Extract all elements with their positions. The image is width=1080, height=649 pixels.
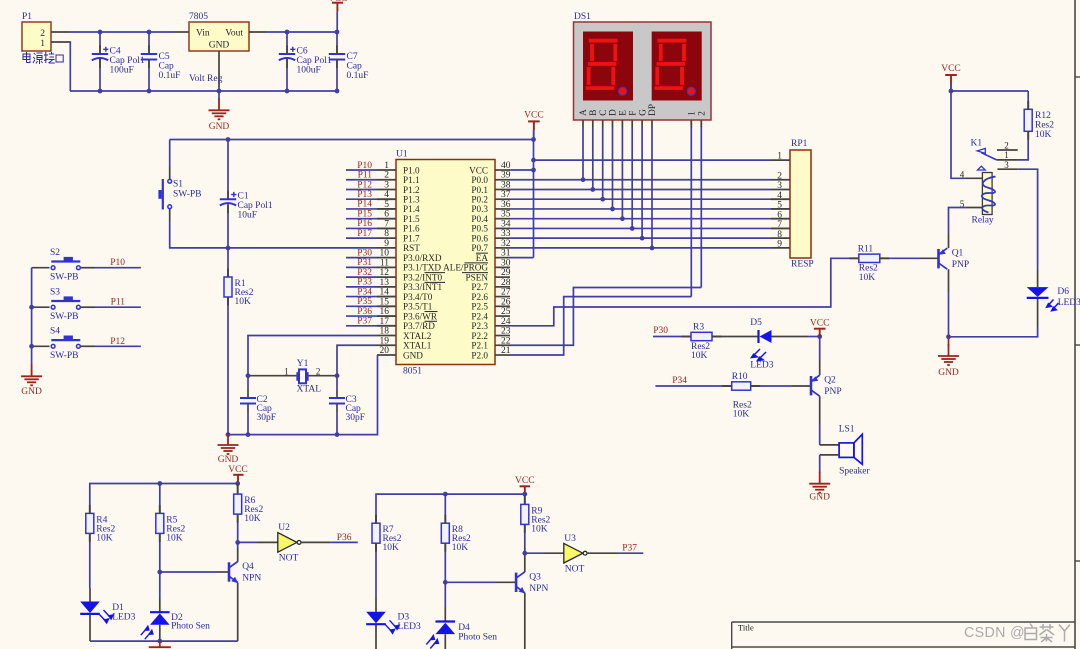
svg-text:S3: S3 [50, 287, 60, 297]
svg-text:C: C [598, 110, 608, 116]
photodiode D2 symbol [150, 611, 170, 613]
svg-text:18: 18 [380, 327, 390, 337]
U1 pin 33 stub [495, 237, 510, 239]
svg-text:LED3: LED3 [1058, 298, 1080, 308]
photodiode D4 symbol [436, 620, 456, 622]
U1 pin 8 stub [377, 237, 396, 239]
resistor R1 [227, 248, 229, 277]
U1 pin name overlines [425, 253, 489, 321]
svg-text:D6: D6 [1057, 287, 1069, 297]
U1 pin 32 stub [495, 247, 510, 249]
RP1 pin 1 stub [771, 159, 790, 161]
svg-text:P2.6: P2.6 [471, 292, 488, 302]
svg-text:3: 3 [384, 180, 389, 190]
wire P0.1 to RP1 pin 3 [510, 188, 771, 190]
svg-text:5: 5 [777, 201, 782, 211]
svg-text:31: 31 [501, 249, 511, 259]
svg-text:P14: P14 [357, 200, 372, 210]
U1 pin 15 stub [377, 305, 396, 307]
svg-text:P15: P15 [357, 209, 372, 219]
wire DS1 pin E [621, 120, 623, 128]
svg-text:P37: P37 [357, 317, 372, 327]
display DS1 right digit [652, 32, 702, 101]
resistor R6 [234, 494, 242, 514]
svg-text:Speaker: Speaker [839, 467, 870, 477]
svg-text:19: 19 [380, 336, 390, 346]
transistor Q1 [939, 248, 948, 269]
svg-text:CSDN @: CSDN @ [964, 625, 1025, 641]
RP1 pin 2 stub [771, 179, 790, 181]
svg-text:P3.0/RXD: P3.0/RXD [403, 253, 442, 263]
wire D2 to bottom rail [159, 625, 161, 641]
inverter U3 [564, 543, 583, 563]
junction D5/VCC [817, 334, 822, 339]
svg-text:6: 6 [777, 210, 782, 220]
junction [29, 344, 34, 349]
junction U2 input [235, 540, 240, 545]
wire coil pin 5 to Q1 emitter [949, 208, 966, 234]
svg-text:Q2: Q2 [824, 376, 836, 386]
svg-text:GND: GND [209, 41, 230, 51]
svg-text:P36: P36 [357, 307, 372, 317]
title block [732, 621, 1075, 623]
wire DS1 pin 1 (digit1 common) [690, 120, 692, 128]
wire P2.1 (pin22) to DS1 pin2 [510, 288, 701, 346]
resistor R7 [372, 523, 380, 543]
wire U2 output to net label P36 [301, 541, 331, 543]
border tick marks [1075, 76, 1080, 78]
LED D1 symbol [80, 602, 100, 614]
U1 pin 30 stub [495, 266, 510, 268]
U1 pin 36 stub [495, 208, 510, 210]
svg-text:P10: P10 [357, 161, 372, 171]
wire P0.6 to RP1 pin 8 [510, 237, 771, 239]
svg-text:R10: R10 [732, 372, 748, 382]
wire S1 to RST [169, 209, 171, 221]
wire D6 to gnd rail [1037, 299, 1039, 327]
wire net label P14 [346, 208, 377, 210]
svg-text:K1: K1 [971, 139, 983, 149]
junction [531, 158, 536, 163]
svg-text:P1.4: P1.4 [403, 204, 420, 214]
svg-text:37: 37 [501, 190, 511, 200]
wire P0.3 to RP1 pin 5 [510, 208, 771, 210]
watermark hand-drawn CJK 白茶丫 [1025, 624, 1070, 643]
svg-text:P17: P17 [357, 229, 372, 239]
junction R5 top [157, 481, 162, 486]
capacitor C6 [286, 32, 288, 47]
junction gnd stub [157, 639, 162, 644]
junction [246, 432, 251, 437]
svg-text:P35: P35 [357, 297, 372, 307]
U1 pin 1 stub [377, 169, 396, 171]
wire Q4 base [160, 571, 217, 573]
svg-text:P1.3: P1.3 [403, 195, 420, 205]
svg-text:2: 2 [1004, 140, 1009, 150]
svg-text:Q3: Q3 [529, 572, 541, 582]
wire net label P16 [346, 227, 377, 229]
junction [949, 89, 954, 94]
U1 pin 4 stub [377, 198, 396, 200]
LED D3 symbol [366, 612, 386, 624]
svg-text:R12: R12 [1035, 111, 1051, 121]
svg-text:P2.5: P2.5 [471, 302, 488, 312]
svg-text:10K: 10K [733, 410, 750, 420]
svg-text:VCC: VCC [469, 165, 488, 175]
svg-text:P1: P1 [22, 12, 32, 22]
svg-text:P2.4: P2.4 [471, 311, 488, 321]
svg-text:30: 30 [501, 258, 511, 268]
svg-text:P1.6: P1.6 [403, 224, 420, 234]
U1 pin 5 stub [377, 208, 396, 210]
svg-text:8: 8 [777, 230, 782, 240]
resistor R4 [86, 513, 94, 533]
U1 pin 12 stub [377, 276, 396, 278]
capacitor C2 [247, 376, 249, 390]
U1 pin 17 stub [377, 325, 396, 327]
VCC rail wire (reset) y=139.5 [170, 139, 534, 141]
wire R8 to D4 [444, 543, 446, 607]
svg-text:P2.2: P2.2 [471, 331, 488, 341]
ground GND (7805) [209, 98, 230, 119]
capacitor C4 symbol [99, 46, 101, 55]
svg-text:NOT: NOT [565, 565, 585, 575]
junction R9 top [522, 492, 527, 497]
RP1 pin 7 stub [771, 227, 790, 229]
resistor R11 [859, 254, 880, 262]
resistor R12 [1027, 91, 1029, 109]
wire P0.7 to RP1 pin 9 [510, 247, 771, 249]
svg-text:P1.1: P1.1 [403, 175, 420, 185]
svg-text:P3.6/WR: P3.6/WR [403, 311, 438, 321]
svg-text:P30: P30 [357, 248, 372, 258]
U1 pin 23 stub [495, 335, 510, 337]
svg-text:39: 39 [501, 171, 511, 181]
junction Q3 base [443, 580, 448, 585]
svg-text:2: 2 [40, 29, 45, 39]
junction R6 top [235, 481, 240, 486]
capacitor C5 symbol [148, 46, 150, 55]
U1 pin 35 stub [495, 218, 510, 220]
svg-text:P36: P36 [337, 533, 352, 543]
svg-text:36: 36 [501, 200, 511, 210]
svg-text:DP: DP [647, 104, 657, 116]
svg-text:1: 1 [384, 161, 389, 171]
svg-text:P11: P11 [358, 171, 373, 181]
wire net label P34 [346, 296, 377, 298]
svg-text:GND: GND [403, 350, 423, 360]
resistor R1 [224, 277, 232, 297]
capacitor C7 [336, 32, 338, 47]
svg-text:R11: R11 [858, 244, 874, 254]
svg-text:P34: P34 [672, 376, 687, 386]
U1 pin 2 stub [377, 179, 396, 181]
svg-text:VCC: VCC [228, 465, 248, 475]
svg-text:1: 1 [777, 152, 782, 162]
svg-text:A: A [578, 109, 588, 116]
svg-text:29: 29 [501, 268, 511, 278]
svg-text:LED3: LED3 [112, 613, 135, 623]
junction U3 input [522, 551, 527, 556]
RP1 pin 6 stub [771, 218, 790, 220]
svg-text:P0.4: P0.4 [471, 214, 488, 224]
wire U3 output to net label P37 [587, 552, 617, 554]
svg-text:P12: P12 [110, 337, 125, 347]
svg-text:8051: 8051 [403, 367, 422, 377]
svg-text:20: 20 [380, 346, 390, 356]
ground symbol relay [938, 344, 959, 365]
svg-text:NPN: NPN [529, 584, 548, 594]
svg-text:P2.1: P2.1 [471, 341, 488, 351]
svg-text:P3.3/INT1: P3.3/INT1 [403, 282, 442, 292]
svg-text:D4: D4 [458, 623, 470, 633]
junction Q4 base [157, 570, 162, 575]
wire pin40 VCC [510, 169, 534, 171]
wire D5 to VCC [772, 336, 809, 338]
svg-text:9: 9 [777, 239, 782, 249]
wire DS1 pin 2 (digit2 common) [700, 120, 702, 128]
svg-text:G: G [637, 109, 647, 116]
wire DS1 pin B [592, 120, 594, 128]
svg-text:R3: R3 [693, 323, 704, 333]
svg-text:4: 4 [777, 191, 782, 201]
U1 pin 6 stub [377, 218, 396, 220]
wire speaker to gnd [820, 454, 839, 456]
junction DP [650, 245, 655, 250]
svg-text:40: 40 [501, 161, 511, 171]
svg-text:P0.7: P0.7 [471, 243, 488, 253]
ground GND (switches) [21, 364, 42, 385]
svg-text:10uF: 10uF [238, 211, 258, 221]
U1 pin 40 stub [495, 169, 510, 171]
wire R3 to D5 [712, 336, 758, 338]
wire Q3 emitter down (cropped) [524, 593, 526, 649]
svg-text:P2.3: P2.3 [471, 321, 488, 331]
transistor Q3 [516, 572, 525, 593]
svg-text:P0.6: P0.6 [471, 233, 488, 243]
wire D3 down (cropped) [375, 625, 377, 649]
U1 pin 39 stub [495, 179, 510, 181]
svg-text:26: 26 [501, 297, 511, 307]
wire R11 to Q1 base [880, 257, 920, 259]
wire net label P31 [346, 266, 377, 268]
wire 7805 GND down [218, 51, 220, 87]
svg-text:15: 15 [380, 297, 390, 307]
svg-text:P16: P16 [357, 219, 372, 229]
resistor R9 [521, 504, 529, 524]
wire Q1 collector down [948, 269, 950, 292]
svg-text:P1.0: P1.0 [403, 165, 420, 175]
svg-text:VCC: VCC [515, 476, 535, 486]
wire VCC to Q2 emitter [819, 337, 821, 361]
wire DS1 pin G [641, 120, 643, 128]
resistor R6 [237, 484, 239, 495]
svg-text:P13: P13 [357, 190, 372, 200]
junction F [630, 226, 635, 231]
svg-text:P10: P10 [110, 258, 125, 268]
svg-text:GND: GND [21, 387, 42, 397]
svg-text:10K: 10K [244, 514, 261, 524]
U1 pin 31 stub [495, 257, 510, 259]
svg-text:P11: P11 [111, 298, 126, 308]
svg-text:F: F [627, 111, 637, 116]
U1 pin 22 stub [495, 344, 510, 346]
wire DS1 pin DP [651, 120, 653, 128]
wire P1 pin2 to 7805 Vin [51, 31, 69, 33]
junction C1 top [226, 137, 231, 142]
U1 pin 13 stub [377, 286, 396, 288]
U1 pin 9 stub [377, 247, 396, 249]
wire net label P10 [346, 169, 377, 171]
U1 pin 11 stub [377, 266, 396, 268]
svg-text:2: 2 [777, 171, 782, 181]
wire XTAL1 (pin19) to Y1 [337, 345, 377, 375]
svg-text:P30: P30 [653, 326, 668, 336]
wire net label P13 [346, 198, 377, 200]
svg-text:22: 22 [501, 336, 511, 346]
svg-text:RP1: RP1 [791, 139, 808, 149]
svg-text:27: 27 [501, 288, 511, 298]
resistor R8 [441, 523, 449, 543]
junction Q1 collector / D6 [946, 334, 951, 339]
junction [98, 30, 103, 35]
svg-text:Vin: Vin [196, 29, 210, 39]
resistor R5 [156, 513, 164, 533]
wire net label P15 [346, 218, 377, 220]
inverter U2 NOT [238, 541, 257, 543]
U1 pin 7 stub [377, 227, 396, 229]
RP1 pin 3 stub [771, 188, 790, 190]
svg-text:P1.5: P1.5 [403, 214, 420, 224]
junction [335, 30, 340, 35]
svg-text:U3: U3 [564, 534, 576, 544]
svg-text:100uF: 100uF [110, 66, 134, 76]
capacitor C3 [336, 376, 338, 390]
svg-text:D3: D3 [398, 612, 410, 622]
wire net label P35 [346, 305, 377, 307]
wire R10 to Q2 base [751, 385, 792, 387]
svg-text:10K: 10K [1035, 130, 1052, 140]
RP1 pin 8 stub [771, 237, 790, 239]
U1 pin 20 stub [377, 354, 396, 356]
svg-text:PNP: PNP [952, 260, 969, 270]
svg-text:10K: 10K [859, 273, 876, 283]
transistor Q2 [811, 375, 820, 396]
svg-text:2: 2 [316, 367, 321, 377]
U1 pin 28 stub [495, 286, 510, 288]
U1 pin 38 stub [495, 188, 510, 190]
junction [335, 89, 340, 94]
svg-text:P3.1/TXD: P3.1/TXD [403, 263, 441, 273]
wire R9 to U3 input [524, 524, 526, 548]
junction D [610, 207, 615, 212]
wire P0.0 to RP1 pin 2 [510, 179, 771, 181]
svg-text:10K: 10K [452, 543, 469, 553]
wire S4 to net label P12 [81, 345, 96, 347]
svg-text:P3.4/T0: P3.4/T0 [403, 292, 433, 302]
svg-text:32: 32 [501, 239, 511, 249]
wire P0.5 to RP1 pin 7 [510, 227, 771, 229]
svg-text:17: 17 [380, 317, 390, 327]
svg-text:3: 3 [777, 181, 782, 191]
wire R6 to U2 input [237, 514, 239, 548]
ground stub (cropped) [159, 641, 161, 647]
svg-text:PSEN: PSEN [466, 272, 489, 282]
svg-text:NOT: NOT [279, 554, 299, 564]
ground GND (relay) [948, 337, 950, 346]
junction Y1 left [246, 373, 251, 378]
svg-text:Cap Pol1: Cap Pol1 [297, 56, 332, 66]
svg-text:XTAL: XTAL [297, 384, 322, 394]
svg-text:E: E [618, 110, 628, 116]
svg-text:14: 14 [380, 288, 390, 298]
switch S4 SW-PB [32, 345, 50, 347]
svg-text:GND: GND [938, 368, 959, 378]
svg-text:P3.7/RD: P3.7/RD [403, 321, 435, 331]
inverter U3 NOT [525, 552, 544, 554]
svg-text:S2: S2 [50, 248, 60, 258]
svg-text:35: 35 [501, 210, 511, 220]
ground symbol xtal [218, 433, 239, 454]
svg-text:10K: 10K [235, 297, 252, 307]
junction RST node [226, 246, 231, 251]
svg-text:10K: 10K [691, 351, 708, 361]
svg-text:P12: P12 [357, 180, 372, 190]
svg-text:P0.2: P0.2 [471, 195, 488, 205]
svg-text:LED3: LED3 [750, 361, 773, 371]
ground symbol (power section) [218, 91, 220, 100]
svg-text:0.1uF: 0.1uF [159, 71, 181, 81]
wire R1 to xtal ground rail [227, 297, 229, 435]
svg-text:8: 8 [384, 229, 389, 239]
svg-text:1: 1 [687, 111, 697, 116]
svg-text:Title: Title [738, 623, 754, 633]
wire sensor-left vcc rail [90, 484, 238, 514]
junction [531, 137, 536, 142]
svg-text:P1.2: P1.2 [403, 185, 420, 195]
svg-text:Cap: Cap [347, 62, 363, 72]
svg-text:5: 5 [384, 200, 389, 210]
wire VCC rail to R12 [951, 90, 1028, 92]
svg-text:10K: 10K [531, 524, 548, 534]
svg-text:Cap Pol1: Cap Pol1 [110, 56, 145, 66]
sheet border right edge [1074, 0, 1076, 649]
wire VCC vertical to EA [533, 140, 535, 258]
wire net label P33 [346, 286, 377, 288]
svg-text:GND: GND [218, 455, 239, 465]
svg-text:SW-PB: SW-PB [50, 273, 79, 283]
svg-text:30pF: 30pF [346, 413, 366, 423]
capacitor C1 symbol [227, 191, 229, 200]
svg-text:4: 4 [384, 190, 389, 200]
junction [335, 432, 340, 437]
wire net label P12 [346, 188, 377, 190]
svg-text:Cap Pol1: Cap Pol1 [238, 201, 273, 211]
svg-text:P2.0: P2.0 [471, 350, 488, 360]
svg-text:10K: 10K [383, 543, 400, 553]
svg-text:Photo Sen: Photo Sen [171, 622, 210, 632]
U1 pin 25 stub [495, 315, 510, 317]
wire R5 to D2 [159, 533, 161, 598]
svg-text:10: 10 [380, 249, 390, 259]
svg-text:Cap: Cap [159, 62, 175, 72]
LED D5 [757, 330, 759, 343]
svg-text:1: 1 [1004, 150, 1009, 160]
wire DS1 pin D [612, 120, 614, 128]
svg-text:Q4: Q4 [242, 562, 254, 572]
wire P2.3 (pin24) to R11 [510, 258, 859, 325]
wire DS1 pin C [602, 120, 604, 128]
